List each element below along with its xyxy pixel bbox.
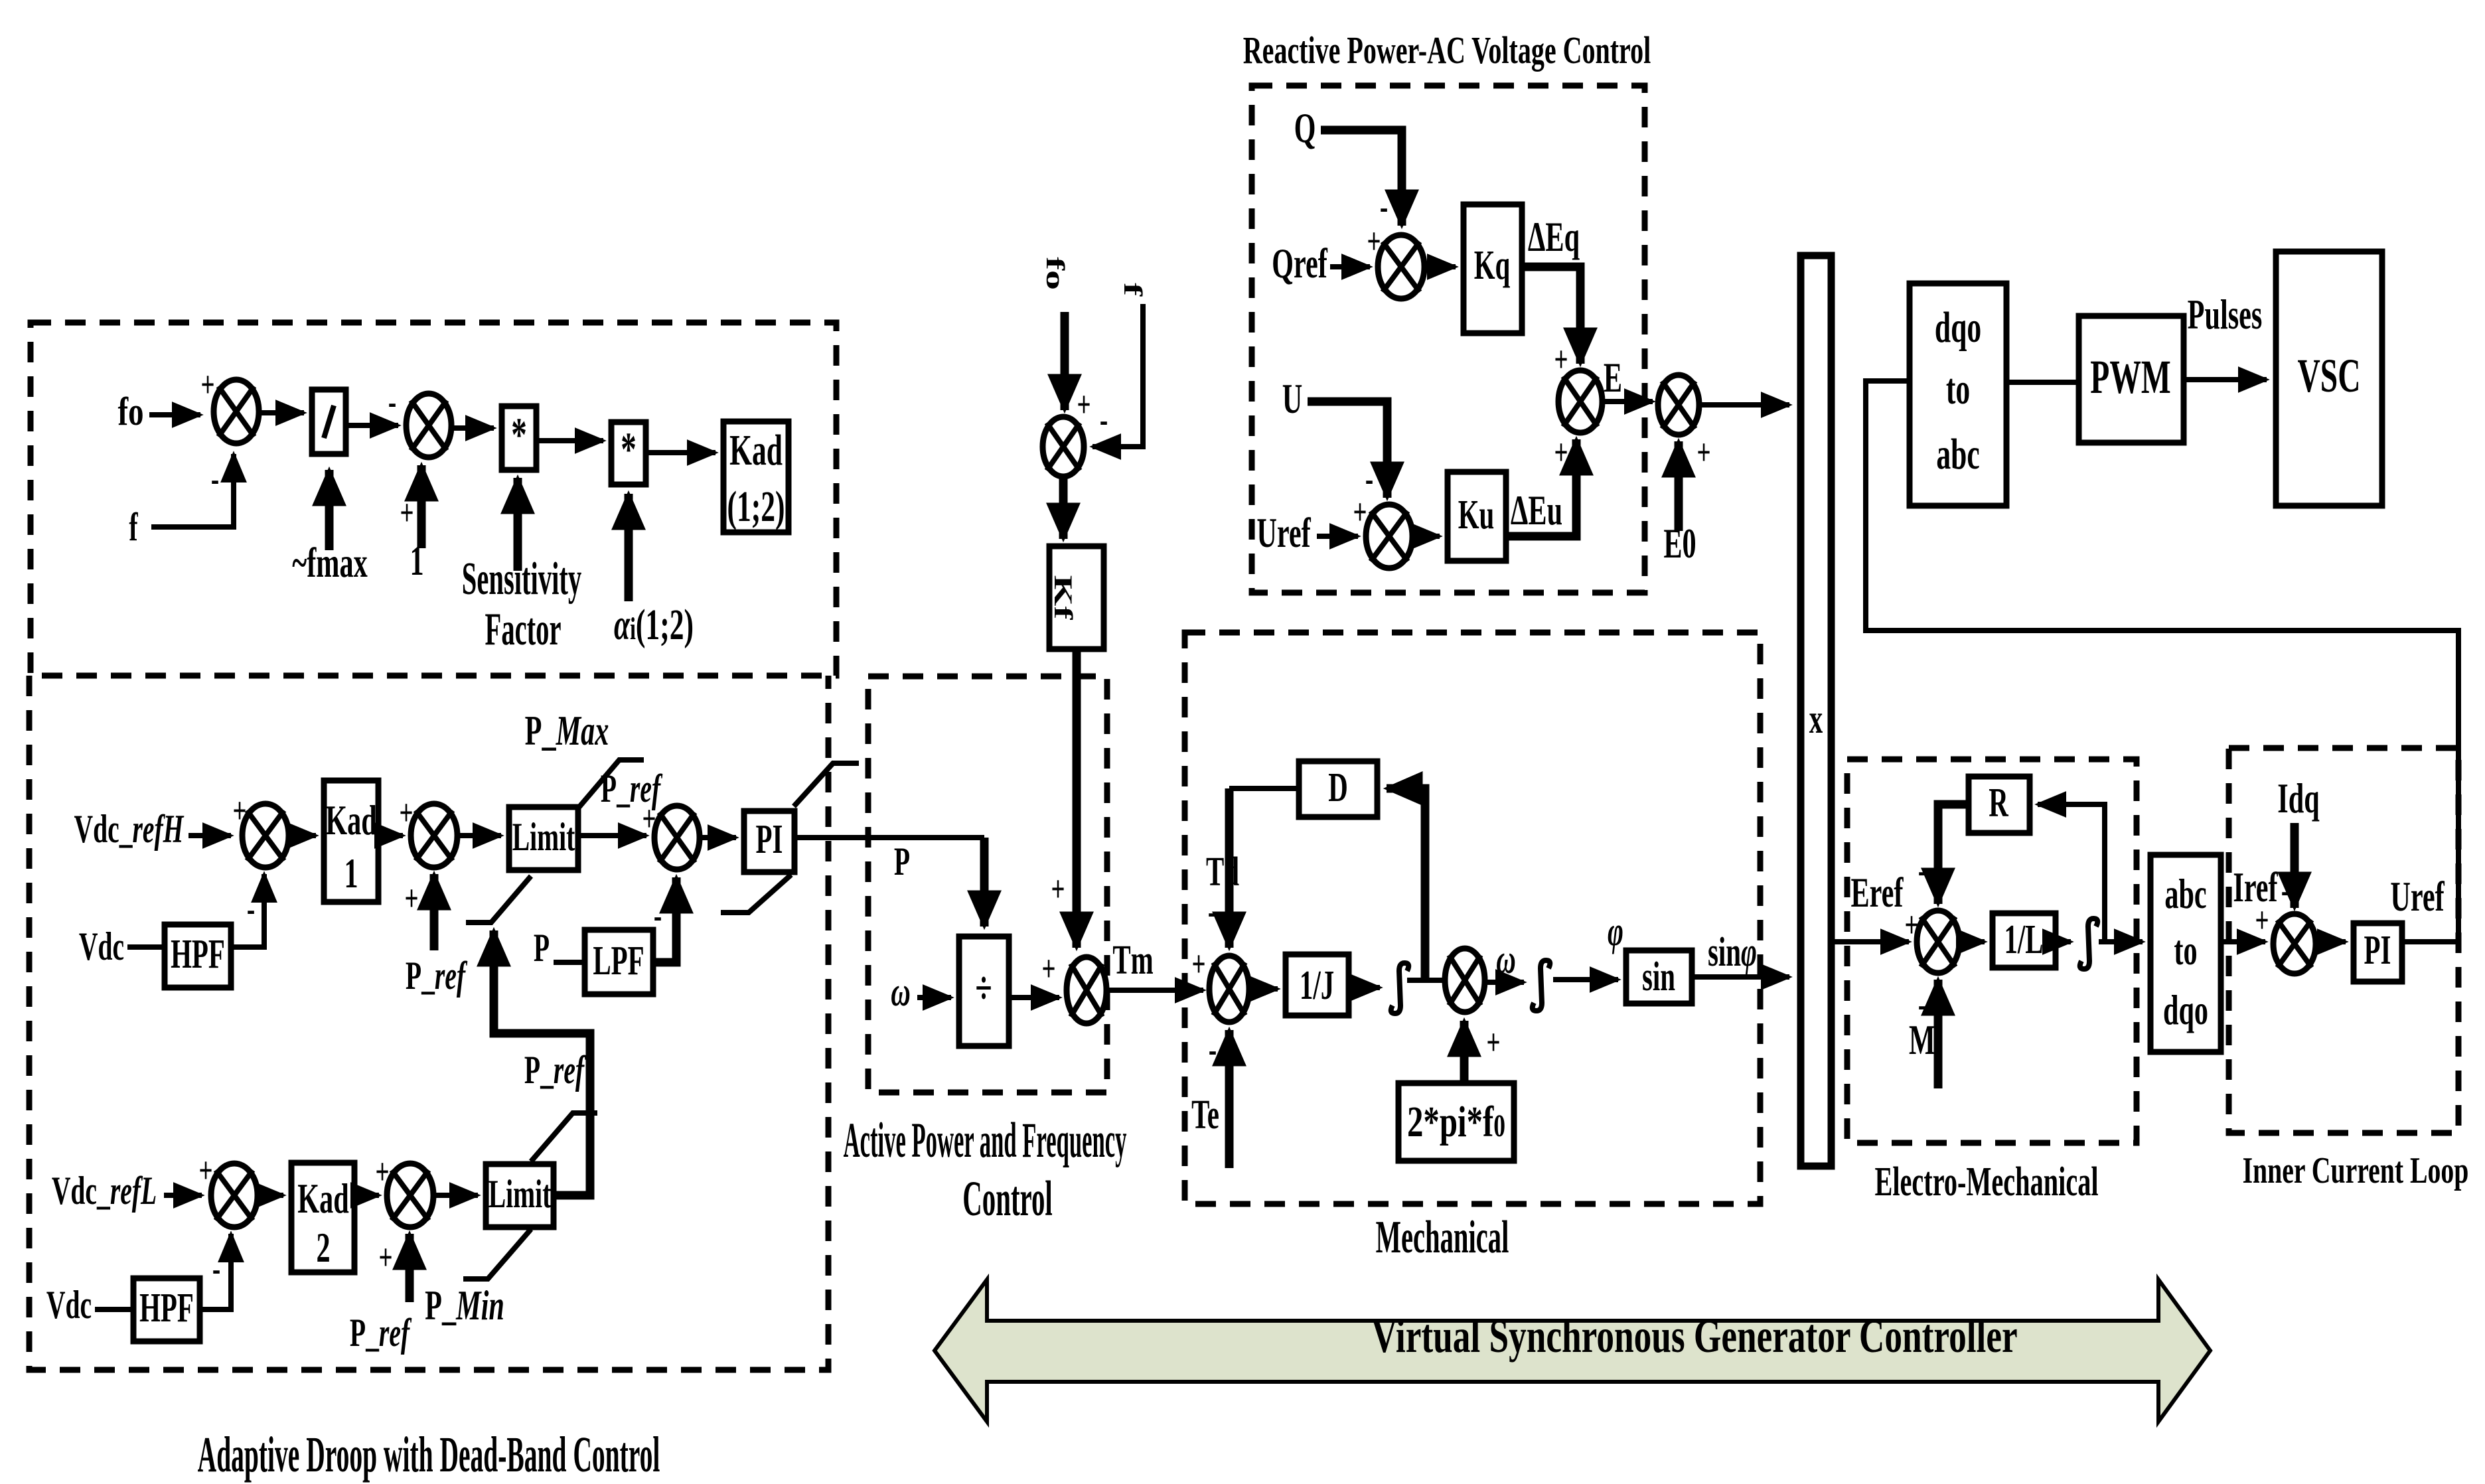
svg-text:LPF: LPF <box>593 938 644 984</box>
svg-text:Q: Q <box>1294 104 1316 151</box>
svg-text:-: - <box>1100 400 1108 441</box>
svg-text:Idq: Idq <box>2277 775 2319 822</box>
wire fo to summing junction S1 <box>149 412 200 417</box>
wire E to summing junction S15 <box>1602 399 1653 404</box>
svg-text:ω: ω <box>891 970 911 1015</box>
svg-text:αi(1;2): αi(1;2) <box>614 601 694 649</box>
summing junction S16 <box>1917 911 1959 973</box>
summing junction S8 (fo - f) <box>1043 417 1084 477</box>
wire 1/J to integrator 1 <box>1349 985 1380 990</box>
svg-text:Mechanical: Mechanical <box>1376 1212 1509 1263</box>
wire S3 to block Kad 1 <box>289 833 316 838</box>
double-headed banner arrow Virtual Synchronous Generator Controller <box>935 1280 2210 1422</box>
wire R output down into S16 top <box>1938 804 1969 904</box>
wire Te up into S10 bottom <box>1225 1030 1234 1168</box>
block Kad 1 <box>324 780 378 902</box>
svg-text:Limit: Limit <box>489 1172 552 1216</box>
wire omega to divide block <box>917 995 951 1000</box>
wire S14 to block Ku <box>1412 534 1440 539</box>
svg-text:PI: PI <box>2364 928 2391 973</box>
svg-text:Reactive Power-AC Voltage Con: Reactive Power-AC Voltage Control <box>1243 29 1651 72</box>
svg-text:P: P <box>534 926 550 970</box>
svg-text:ω: ω <box>1496 937 1516 982</box>
integrator 1 (acceleration) <box>1391 963 1409 1013</box>
wire f down and into S8 right <box>1092 304 1143 447</box>
wire S8 to block Kf <box>1059 477 1068 539</box>
block Kf <box>1049 546 1104 649</box>
summing junction S12 (Qref - Q) <box>1378 235 1424 299</box>
svg-text:+: + <box>400 493 414 534</box>
wire Kad2 to summing junction S7 <box>354 1193 379 1198</box>
svg-text:f: f <box>129 505 138 549</box>
block dqo to abc <box>1910 283 2006 506</box>
svg-text:VSC: VSC <box>2297 350 2360 402</box>
svg-text:Kq: Kq <box>1474 243 1511 288</box>
wire S12 to block Kq <box>1424 264 1456 269</box>
svg-text:Limit: Limit <box>512 815 575 859</box>
wire Kad1 to summing junction S4 <box>378 833 403 838</box>
wire S4 to Limit block <box>457 833 501 838</box>
wire Q down into summing junction S12 <box>1321 130 1402 226</box>
wire Uref to S14 <box>1317 534 1358 539</box>
wire Tm to summing junction S10 <box>1106 988 1203 993</box>
svg-text:+: + <box>1696 433 1710 473</box>
svg-text:R: R <box>1989 780 2008 826</box>
dashed box: adaptive droop gain (sensitivity factor) section <box>31 323 836 676</box>
svg-text:*: * <box>511 409 527 461</box>
summing junction S2 <box>406 394 451 457</box>
svg-text:E0: E0 <box>1663 520 1696 567</box>
svg-text:Kf: Kf <box>1049 575 1078 621</box>
block 1/L <box>1993 913 2056 968</box>
svg-text:Vdc_refH: Vdc_refH <box>74 807 185 851</box>
wire S1 to divide block <box>259 410 304 415</box>
saturation symbol upper-right of lower Limit <box>531 1113 597 1161</box>
svg-text:Td: Td <box>1206 850 1239 895</box>
saturation symbol upper-right of PI <box>794 763 859 806</box>
wire takeoff into R block <box>2038 804 2105 942</box>
summing junction S10 (Tm - Td - Te) <box>1209 956 1249 1022</box>
block abc to dqo <box>2150 855 2221 1052</box>
saturation symbol lower-left of PI <box>721 875 791 913</box>
block Kq <box>1464 204 1522 333</box>
wire E0 up into S15 bottom <box>1675 441 1683 531</box>
wire Idq down into summing junction S17 <box>2291 823 2299 908</box>
wire integrator 2 to sin block <box>1553 977 1618 982</box>
svg-text:Eref: Eref <box>1851 869 1904 916</box>
divide block "/" <box>312 390 346 454</box>
svg-text:+: + <box>1554 433 1568 473</box>
dashed box: Inner Current Loop section <box>2229 748 2458 1133</box>
summing junction S15 (E + E0) <box>1658 375 1699 435</box>
svg-text:PI: PI <box>756 817 783 862</box>
summing junction S17 (Iref - Idq) <box>2273 914 2316 974</box>
svg-text:+: + <box>1041 949 1055 990</box>
saturation symbol upper-right of Limit <box>577 760 644 809</box>
wire f to S1 bottom <box>151 454 234 527</box>
svg-text:HPF: HPF <box>139 1286 194 1331</box>
summing junction S6 <box>211 1163 258 1227</box>
wire Sensitivity Factor into M1 <box>514 478 522 571</box>
wire abc-to-dqo to S17 <box>2221 939 2265 944</box>
svg-text:+: + <box>200 365 214 406</box>
summing junction S9 (Tm) <box>1067 957 1106 1023</box>
block Kad 2 <box>291 1163 354 1272</box>
svg-text:Vdc: Vdc <box>46 1283 92 1327</box>
svg-text:Active Power and Frequency: Active Power and Frequency <box>844 1112 1127 1167</box>
wire Limit to summing junction S5 <box>578 833 646 838</box>
svg-text:Adaptive Droop with Dead-Band: Adaptive Droop with Dead-Band Control <box>198 1428 660 1483</box>
wire M1 to multiplier M2 <box>536 438 603 443</box>
summing junction S14 (Uref - U) <box>1366 504 1412 568</box>
wire P_ref into S7 bottom <box>406 1234 414 1302</box>
block Ku <box>1448 472 1506 561</box>
svg-text:dqo: dqo <box>2163 986 2208 1033</box>
saturation symbol lower-left of Limit <box>466 876 531 923</box>
svg-text:sin: sin <box>1642 954 1675 1000</box>
wire S6 to block Kad 2 <box>258 1193 283 1198</box>
svg-text:-: - <box>1208 892 1216 932</box>
svg-text:Factor: Factor <box>485 604 562 655</box>
block 2*pi*f0 <box>1398 1083 1514 1161</box>
svg-text:E: E <box>1604 354 1622 401</box>
wire divide block to summing junction S2 <box>346 423 398 428</box>
svg-text:P_Max: P_Max <box>525 707 609 754</box>
dashed box: Reactive Power-AC Voltage Control section <box>1252 86 1645 593</box>
integrator 2 (angle) <box>1533 960 1550 1011</box>
wire S15 to X bus <box>1699 402 1789 408</box>
svg-text:HPF: HPF <box>171 932 225 977</box>
block PWM <box>2079 316 2184 443</box>
wire sin to X bus <box>1692 974 1789 980</box>
svg-text:P: P <box>894 840 910 883</box>
wire Vdc_refL to summing junction S6 <box>164 1193 202 1198</box>
svg-text:P_ref: P_ref <box>406 954 468 998</box>
svg-text:sinφ: sinφ <box>1708 930 1757 975</box>
svg-text:abc: abc <box>2164 870 2206 917</box>
svg-text:1/L: 1/L <box>2004 917 2043 962</box>
summing junction S1 (fo - f) <box>214 380 259 443</box>
svg-text:+: + <box>1051 869 1065 910</box>
wire S17 to PI block <box>2316 939 2346 944</box>
block HPF (upper) <box>165 925 231 988</box>
wire D feedback down into S10 top <box>1225 788 1234 948</box>
svg-text:P_Min: P_Min <box>425 1282 504 1329</box>
svg-text:-: - <box>1209 1030 1217 1071</box>
wire HPF to S3 bottom <box>231 874 264 947</box>
svg-text:Ku: Ku <box>1458 492 1495 538</box>
svg-text:U: U <box>1282 375 1303 422</box>
svg-text:Vdc_refL: Vdc_refL <box>52 1169 157 1213</box>
svg-text:Pulses: Pulses <box>2188 291 2263 338</box>
wire Kq output down into summing junction S13 top <box>1522 267 1580 364</box>
saturation symbol lower-left of lower Limit <box>463 1229 531 1279</box>
wire M up into S16 bottom <box>1934 980 1943 1088</box>
svg-text:~fmax: ~fmax <box>292 539 367 586</box>
wire dqo-to-abc to PWM <box>2006 380 2079 385</box>
svg-text:dqo: dqo <box>1935 303 1981 352</box>
block Limit (lower) <box>486 1164 554 1227</box>
svg-text:+: + <box>2255 901 2269 941</box>
wire Ku output up into S13 bottom <box>1506 439 1576 536</box>
svg-text:Electro-Mechanical: Electro-Mechanical <box>1874 1159 2098 1205</box>
wire divide to summing junction S9 <box>1009 995 1059 1000</box>
svg-text:÷: ÷ <box>975 962 992 1013</box>
wire D output to S10 <box>1229 786 1299 791</box>
block R <box>1969 777 2030 833</box>
svg-text:-: - <box>211 459 219 500</box>
wire S5 to PI block <box>700 835 736 840</box>
wire lower Limit output up to upper Limit lower bound (P_ref) <box>494 930 590 1195</box>
svg-text:Vdc: Vdc <box>79 925 124 968</box>
svg-text:Virtual Synchronous Generator: Virtual Synchronous Generator Controller <box>1371 1309 2017 1363</box>
wire PI output to feedback riser <box>2402 939 2456 944</box>
svg-text:-: - <box>388 382 396 423</box>
svg-text:-: - <box>2281 871 2289 911</box>
summing junction S7 <box>387 1163 433 1227</box>
svg-text:P_ref: P_ref <box>350 1311 412 1355</box>
wire U down toward summing junction S14 <box>1308 402 1387 498</box>
wire Uref feedback loop into dqo-to-abc block <box>1866 381 2458 937</box>
svg-text:fo: fo <box>1041 257 1070 290</box>
svg-text:Inner Current Loop: Inner Current Loop <box>2243 1150 2469 1191</box>
svg-text:ΔEq: ΔEq <box>1528 213 1580 260</box>
svg-text:P_ref: P_ref <box>524 1048 587 1092</box>
wire HPF to S6 bottom <box>200 1234 231 1309</box>
wire 1/L to integrator 3 <box>2056 939 2071 944</box>
wire constant 1 into S2 bottom <box>417 465 426 548</box>
wire Kf down to summing junction S9 (Tm) <box>1073 649 1081 948</box>
block HPF (lower) <box>133 1278 200 1341</box>
svg-text:Kad: Kad <box>297 1175 348 1222</box>
dashed box: Electro-Mechanical section <box>1847 759 2137 1143</box>
wire P to LPF <box>554 960 585 965</box>
svg-text:x: x <box>1809 697 1823 742</box>
wire 2*pi*f0 up into S11 bottom <box>1460 1021 1469 1083</box>
svg-text:1: 1 <box>410 537 423 584</box>
svg-text:+: + <box>1077 385 1091 425</box>
svg-text:M: M <box>1909 1016 1935 1063</box>
svg-text:Tm: Tm <box>1112 938 1153 983</box>
block PI (adaptive droop) <box>744 811 794 872</box>
svg-text:+: + <box>1191 944 1205 985</box>
block Kad (1;2) <box>723 421 789 532</box>
svg-text:Uref: Uref <box>1256 509 1311 556</box>
wire S10 to block 1/J <box>1249 986 1278 992</box>
wire PI output to divide block (P path) <box>794 835 984 840</box>
wire S16 to block 1/L <box>1959 939 1985 944</box>
wire Vdc to HPF lower <box>95 1307 133 1312</box>
multiplier block M1 "*" <box>502 406 536 470</box>
svg-text:Te: Te <box>1191 1092 1219 1138</box>
svg-text:f: f <box>1118 283 1148 297</box>
svg-text:PWM: PWM <box>2090 351 2170 404</box>
multiplier block M2 "*" <box>611 422 646 484</box>
summing junction S4 <box>411 804 457 867</box>
block VSC <box>2276 252 2382 506</box>
svg-text:ΔEu: ΔEu <box>1511 486 1562 534</box>
summing junction S13 (E) <box>1558 370 1602 433</box>
summing junction S5 <box>654 806 700 869</box>
wire LPF to S5 bottom <box>653 877 676 962</box>
svg-text:+: + <box>404 879 418 919</box>
wire S2 to multiplier M1 <box>452 425 494 431</box>
wire integrator 1 to summing junction S11 with takeoff to D <box>1407 978 1445 983</box>
divide block P/omega <box>959 936 1009 1046</box>
wire Qref to S12 <box>1330 264 1370 269</box>
svg-text:Kad: Kad <box>729 426 783 475</box>
svg-text:to: to <box>1946 365 1970 413</box>
svg-text:Qref: Qref <box>1272 240 1327 287</box>
wire X bus to summing junction S16 (Eref) <box>1831 939 1909 944</box>
wire S7 to Limit lower block <box>433 1193 478 1198</box>
svg-text:2: 2 <box>316 1224 330 1271</box>
dashed box: Mechanical section <box>1185 632 1760 1204</box>
summing junction S3 <box>242 804 289 867</box>
wire P_ref into S4 bottom <box>430 874 439 950</box>
svg-text:Control: Control <box>962 1171 1052 1226</box>
svg-text:φ: φ <box>1608 909 1623 954</box>
dashed box: Adaptive Droop with Dead-Band Control section <box>29 676 828 1370</box>
wire PWM to VSC (Pulses) <box>2184 377 2267 382</box>
svg-text:Kad: Kad <box>325 796 376 844</box>
dashed box: Active Power and Frequency Control section <box>868 676 1107 1092</box>
block Limit (upper) <box>509 807 578 870</box>
svg-text:-: - <box>1380 187 1388 228</box>
wire takeoff up to block D <box>1387 788 1425 980</box>
svg-text:-: - <box>1918 851 1926 891</box>
X coupling bus bar <box>1801 256 1831 1166</box>
svg-text:*: * <box>621 423 637 476</box>
svg-text:to: to <box>2174 927 2197 974</box>
svg-text:2*pi*f0: 2*pi*f0 <box>1407 1097 1505 1146</box>
svg-text:Sensitivity: Sensitivity <box>462 554 582 605</box>
wire fo down to summing junction S8 <box>1061 312 1069 410</box>
wire M2 to block Kad(1;2) <box>646 450 715 455</box>
wire integrator 3 to abc-to-dqo block <box>2099 939 2143 944</box>
wire Vdc_refH to summing junction S3 <box>188 833 231 838</box>
svg-text:-: - <box>212 1249 220 1290</box>
svg-text:Uref: Uref <box>2390 873 2445 920</box>
svg-text:+: + <box>378 1238 392 1278</box>
svg-text:1: 1 <box>344 850 358 897</box>
wire alpha-i into M2 <box>625 494 633 601</box>
wire Vdc to HPF <box>127 944 165 950</box>
svg-text:-: - <box>247 889 255 930</box>
block 1/J <box>1286 954 1349 1015</box>
wire ~fmax into divide block <box>325 470 334 550</box>
svg-text:fo: fo <box>118 389 144 433</box>
block LPF <box>585 930 653 994</box>
svg-text:1/J: 1/J <box>1300 963 1334 1008</box>
block sin <box>1626 950 1692 1003</box>
svg-text:(1;2): (1;2) <box>727 482 785 531</box>
block PI (inner current loop) <box>2354 923 2402 982</box>
svg-text:abc: abc <box>1936 430 1979 479</box>
svg-text:D: D <box>1328 765 1348 810</box>
svg-text:-: - <box>654 896 662 936</box>
block D (damping) <box>1299 761 1377 817</box>
integrator 3 (current) <box>2080 919 2098 969</box>
svg-text:+: + <box>1486 1023 1500 1063</box>
summing junction S11 (omega) <box>1445 948 1485 1012</box>
wire S11 to integrator 2 <box>1485 980 1524 985</box>
